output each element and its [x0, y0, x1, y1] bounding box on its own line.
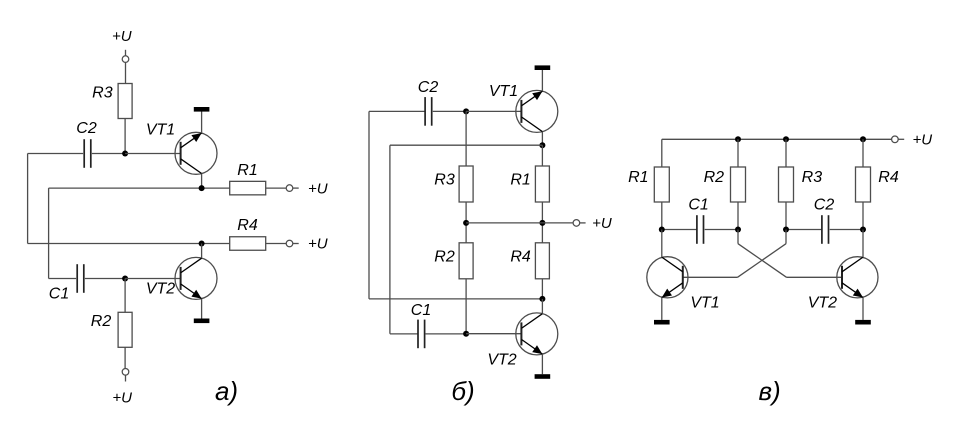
wire R1 to output terminal (a) — [266, 187, 286, 189]
wire outer vertical rail (b) — [368, 111, 370, 299]
svg-text:R2: R2 — [434, 249, 455, 266]
capacitor C1 (v) — [696, 215, 698, 244]
transistor VT2 (b) — [516, 313, 558, 355]
junction node B5 C1/R2/base VT2 (b) — [463, 331, 469, 337]
svg-text:+U: +U — [592, 215, 612, 232]
wire R4 bottom to node B6 (b) — [541, 279, 543, 299]
wire horizontal to VT2 base (v) — [787, 276, 843, 278]
junction node A4 C1/R2/base VT2 (a) — [122, 276, 128, 282]
wire VT2 collector to node B6 (b) — [541, 299, 543, 314]
svg-text:R4: R4 — [510, 249, 531, 266]
junction node B4 mid-right (b) — [539, 220, 545, 226]
wire node A4 to VT2 base (a) — [125, 278, 181, 280]
wire C2 right to node B1 (b) — [433, 110, 466, 112]
svg-text:C1: C1 — [411, 302, 431, 319]
wire rail to R2 top (v) — [737, 139, 739, 167]
wire node B2 to R1 top (b) — [541, 145, 543, 166]
svg-text:R4: R4 — [878, 169, 899, 186]
wire C2 right plate to node A1 (a) — [92, 153, 125, 155]
wire VT1 emitter to ground (a) — [201, 112, 203, 134]
svg-text:+U: +U — [913, 132, 933, 149]
wire C1 right to node B5 (b) — [425, 333, 466, 335]
wire VT2 emitter to ground (b) — [541, 354, 543, 374]
capacitor C2 (v) — [821, 215, 823, 244]
ground bar below VT2 (b) — [535, 374, 551, 379]
svg-text:+U: +U — [112, 389, 132, 406]
wire rail to R3 top (v) — [785, 139, 787, 167]
wire VT1 emitter to ground (b) — [541, 70, 543, 91]
wire VT2 collector to node V4 (v) — [862, 230, 864, 258]
wire stub below bottom terminal (a) — [125, 375, 127, 381]
svg-text:R3: R3 — [434, 172, 455, 189]
wire VT1 emitter to ground (v) — [661, 298, 663, 320]
junction node V1 R1/C1/collector VT1 (v) — [659, 227, 665, 233]
wire R4 to output terminal (a) — [266, 243, 286, 245]
resistor R2 (v) — [731, 167, 746, 202]
svg-text:C2: C2 — [76, 120, 97, 137]
wire horizontal to VT1 base (v) — [683, 276, 738, 278]
wire node B5 to VT2 base (b) — [466, 333, 521, 335]
junction node V3 R3/C2/cross (v) — [783, 227, 789, 233]
wire stub above top terminal (a) — [125, 50, 127, 56]
wire down-left vertical C2 rail (a) — [27, 154, 29, 244]
wire horizontal to node A3 (a) — [28, 243, 230, 245]
wire node B1 to VT1 base (b) — [466, 110, 521, 112]
wire inner vertical rail (b) — [389, 145, 391, 334]
wire outer rail to node B6 (b) — [369, 298, 542, 300]
transistor VT1 (v) — [647, 257, 688, 298]
junction node B2 collector VT1 (b) — [539, 142, 545, 148]
wire VT2 emitter to ground (a) — [201, 299, 203, 319]
transistor VT2 (a) — [175, 257, 217, 299]
svg-text:R1: R1 — [628, 169, 648, 186]
wire stub right of terminal 2 (a) — [293, 243, 299, 245]
wire R3 bottom to node A1 (a) — [124, 119, 126, 154]
wire terminal to R3 top (a) — [125, 63, 127, 84]
wire rail to R4 top (v) — [862, 139, 864, 167]
svg-text:C2: C2 — [418, 79, 439, 96]
resistor R3 (v) — [779, 167, 794, 202]
wire VT1 collector to node A2 (a) — [201, 174, 203, 189]
ground bar above VT1 (a) — [194, 107, 210, 112]
junction node V2 R2/C1/cross (v) — [735, 227, 741, 233]
resistor R3 (b) — [459, 166, 473, 202]
wire vertical rail corner to C1 left plate (a) — [49, 278, 77, 280]
resistor R1 (b) — [535, 166, 549, 202]
capacitor C1 (a) — [76, 264, 78, 293]
svg-text:R2: R2 — [91, 313, 112, 330]
svg-text:C2: C2 — [814, 197, 835, 214]
resistor R4 (b) — [535, 243, 549, 279]
junction node B3 mid-left (b) — [463, 220, 469, 226]
wire R3 bottom to node B3 (b) — [465, 202, 467, 244]
svg-text:R1: R1 — [237, 162, 257, 179]
svg-text:R3: R3 — [92, 85, 113, 102]
wire R2 bottom to node V2 (v) — [737, 202, 739, 230]
wire rail to R1 top (v) — [661, 139, 663, 167]
junction rail-R4 (v) — [860, 136, 866, 142]
capacitor C2 (a) — [83, 139, 85, 168]
capacitor C1 (b) — [417, 320, 419, 349]
wire mid row to output terminal (b) — [466, 222, 573, 224]
svg-text:VT2: VT2 — [146, 281, 175, 298]
wire node V3 short vertical (v) — [785, 230, 787, 244]
wire node V3 to C2 left plate (v) — [786, 229, 822, 231]
terminal circle +U output (b) — [573, 220, 580, 227]
resistor R2 (b) — [459, 243, 473, 279]
wire stub right of terminal (v) — [898, 138, 904, 140]
wire R2 bottom to node B5 (b) — [465, 279, 467, 334]
wire stub right of terminal (b) — [580, 222, 586, 224]
transistor VT1 (a) — [175, 132, 217, 174]
svg-text:б): б) — [451, 376, 474, 406]
svg-text:R3: R3 — [802, 169, 823, 186]
junction node A2 collector VT1 (a) — [199, 185, 205, 191]
wire VT2 emitter to ground (v) — [862, 298, 864, 320]
resistor R1 (a) — [230, 181, 266, 195]
wire C2 right to node V4 (v) — [830, 229, 863, 231]
terminal circle top +U (a) — [122, 56, 129, 63]
wire node V1 to C1 left plate (v) — [662, 229, 697, 231]
wire VT2 collector to node A3 (a) — [201, 244, 203, 259]
junction node B6 collector VT2 (b) — [539, 296, 545, 302]
resistor R2 (a) — [118, 312, 132, 347]
svg-text:R2: R2 — [704, 169, 725, 186]
wire left rail to C2 left plate (a) — [28, 153, 84, 155]
wire inner rail to C1 left plate (b) — [390, 333, 418, 335]
wire left rail to C2 left plate (b) — [369, 110, 425, 112]
wire stub right of terminal 1 (a) — [293, 187, 299, 189]
wire R2 to bottom terminal (a) — [124, 347, 126, 368]
svg-text:VT2: VT2 — [808, 295, 837, 312]
wire VT1 collector to node V1 (v) — [661, 230, 663, 258]
wire R3 bottom to node V3 (v) — [785, 202, 787, 230]
capacitor C2 (b) — [424, 97, 426, 126]
resistor R4 (v) — [856, 167, 871, 202]
resistor R1 (v) — [654, 167, 669, 202]
wire C1 right plate to node A4 (a) — [85, 278, 125, 280]
ground bar above VT1 (b) — [535, 65, 551, 70]
junction node B1 C2/R3/base VT1 (b) — [463, 108, 469, 114]
terminal circle +U output 2 (a) — [286, 240, 293, 247]
wire diagonal V2 to VT2 base row (v) — [738, 244, 787, 278]
resistor R3 (a) — [118, 84, 132, 119]
terminal circle +U (v) — [892, 136, 899, 143]
wire R4 bottom to node V4 (v) — [862, 202, 864, 230]
svg-text:C1: C1 — [688, 197, 708, 214]
wire node V2 short vertical (v) — [737, 230, 739, 244]
wire node B1 to R3 top (b) — [465, 111, 467, 166]
svg-text:а): а) — [215, 376, 238, 406]
resistor R4 (a) — [230, 237, 266, 251]
svg-text:C1: C1 — [49, 286, 69, 303]
ground bar below VT1 (v) — [654, 320, 670, 325]
svg-text:VT1: VT1 — [690, 295, 719, 312]
ground bar below VT2 (v) — [855, 320, 871, 325]
svg-text:R4: R4 — [237, 217, 258, 234]
svg-text:VT2: VT2 — [487, 351, 516, 368]
wire top +U rail (v) — [662, 138, 892, 140]
wire R1 bottom to node V1 (v) — [661, 202, 663, 230]
junction rail-R3 (v) — [783, 136, 789, 142]
svg-text:VT1: VT1 — [489, 83, 518, 100]
wire cross-coupling horizontal at node A2 (a) — [49, 187, 230, 189]
transistor VT1 (b) — [516, 90, 558, 132]
svg-text:в): в) — [758, 376, 780, 406]
terminal circle +U output 1 (a) — [286, 185, 293, 192]
svg-text:+U: +U — [112, 28, 132, 45]
svg-text:R1: R1 — [510, 172, 530, 189]
ground bar below VT2 (a) — [194, 319, 210, 324]
wire diagonal V3 to VT1 base row (v) — [738, 244, 787, 278]
svg-text:VT1: VT1 — [146, 122, 175, 139]
wire C1 right to node V2 (v) — [705, 229, 738, 231]
transistor VT2 (v) — [837, 257, 878, 298]
junction node A3 collector VT2 (a) — [199, 241, 205, 247]
junction node A1 C2/R3/base VT1 (a) — [122, 151, 128, 157]
terminal circle bottom +U (a) — [122, 369, 129, 376]
wire vertical cross-coupling to C1 (a) — [48, 188, 50, 278]
junction node V4 R4/C2/collector VT2 (v) — [860, 227, 866, 233]
wire node A4 down to R2 (a) — [124, 279, 126, 313]
wire R1 bottom to node B4 (b) — [541, 202, 543, 244]
wire node A1 to VT1 base (a) — [125, 153, 181, 155]
svg-text:+U: +U — [308, 236, 328, 253]
junction rail-R2 (v) — [735, 136, 741, 142]
wire node B2 cross horizontal (b) — [390, 144, 543, 146]
svg-text:+U: +U — [308, 180, 328, 197]
wire VT1 collector to node B2 (b) — [541, 132, 543, 146]
